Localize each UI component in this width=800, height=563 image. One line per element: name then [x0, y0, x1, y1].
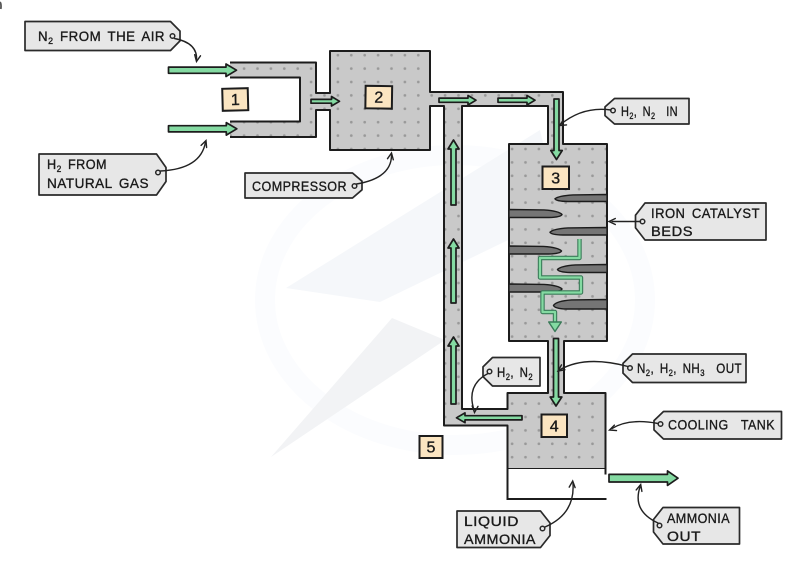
arrow N2 feed in — [169, 64, 237, 77]
numbered label box 5 — [420, 436, 443, 458]
tag: LIQUID AMMONIA — [457, 511, 550, 548]
numbered label box 1 — [222, 88, 248, 111]
numbered label box 2 — [365, 86, 392, 109]
tag: N2 FROM THE AIR — [25, 22, 180, 51]
pointer: H2 N2 in tag to pipe — [560, 109, 612, 125]
iron catalyst bed 1 (right) — [555, 195, 607, 202]
pointer: liquid ammonia tag to tank — [545, 481, 575, 527]
pointer: ammonia out tag to arrow — [636, 485, 658, 524]
svg-text:N2, H2, NH3 OUT: N2, H2, NH3 OUT — [637, 360, 742, 378]
tag: H2 N2 recycle — [483, 358, 540, 387]
numbered label box 3 — [543, 167, 570, 190]
svg-text:IRON CATALYST: IRON CATALYST — [651, 205, 760, 221]
arrow reactor to cooling tank — [550, 339, 562, 407]
pointer: cooling tank tag to vessel 4 — [610, 422, 659, 431]
iron catalyst bed 3 (right) — [550, 228, 607, 236]
iron catalyst bed 7 (right) — [554, 300, 608, 310]
tag: H2 N2 IN — [605, 99, 689, 125]
iron catalyst bed 6 (left) — [509, 284, 562, 292]
tag: COMPRESSOR — [245, 173, 362, 198]
arrow ammonia out — [609, 471, 678, 486]
tag: IRON CATALYST BEDS — [636, 203, 767, 240]
svg-text:LIQUID: LIQUID — [464, 513, 519, 529]
numbered label box 4 — [542, 415, 568, 438]
tag: H2 FROM NATURAL GAS — [39, 154, 166, 195]
watermark lightning bolt logo — [265, 130, 645, 457]
arrow into reactor — [551, 99, 562, 160]
svg-text:OUT: OUT — [667, 528, 701, 544]
tag: AMMONIA OUT — [654, 508, 740, 545]
pointer: compressor tag to vessel 2 — [357, 153, 394, 184]
reactor gas flow zigzag line — [540, 239, 581, 332]
arrow recycle left — [457, 413, 523, 423]
svg-text:AMMONIA: AMMONIA — [667, 510, 730, 526]
pointer: iron catalyst tag to reactor — [609, 219, 641, 225]
svg-text:2: 2 — [374, 90, 383, 107]
svg-text:COMPRESSOR: COMPRESSOR — [252, 178, 347, 194]
tag: COOLING TANK — [654, 412, 782, 440]
arrow H2 feed in — [169, 123, 237, 136]
svg-text:AMMONIA: AMMONIA — [464, 531, 536, 547]
arrow pipe top 2 — [498, 96, 535, 106]
svg-text:H2, N2: H2, N2 — [497, 364, 533, 382]
svg-text:1: 1 — [231, 92, 240, 109]
iron catalyst bed 2 (left) — [509, 210, 562, 218]
arrow vessel1 to compressor — [311, 97, 340, 107]
tag: N2 H2 NH3 OUT — [623, 354, 746, 383]
svg-text:N2 FROM THE AIR: N2 FROM THE AIR — [38, 28, 165, 46]
svg-text:BEDS: BEDS — [651, 223, 693, 239]
svg-text:NATURAL GAS: NATURAL GAS — [47, 175, 149, 191]
svg-text:5: 5 — [427, 440, 436, 457]
iron catalyst bed 5 (right) — [558, 265, 608, 273]
arrow recycle up 2 — [448, 239, 459, 303]
arrow recycle up 1 — [448, 140, 459, 205]
svg-text:3: 3 — [551, 170, 560, 187]
pointer: H2 tag to arrow — [161, 141, 207, 172]
svg-text:COOLING TANK: COOLING TANK — [668, 417, 775, 433]
arrow pipe top 1 — [439, 96, 476, 106]
svg-text:4: 4 — [550, 418, 559, 435]
vessels and pipes combined body (vessel 1, compressor 2, reactor 3, cooling tank 4, recycle pipe 5) — [230, 51, 607, 469]
iron catalyst bed 4 (left) — [509, 246, 562, 254]
cooling tank liquid section (white) — [508, 469, 607, 499]
svg-text:H2 FROM: H2 FROM — [47, 156, 107, 174]
pointer: H2 N2 recycle tag to pipe — [472, 374, 488, 413]
pointer: N2 H2 NH3 out tag to pipe — [558, 362, 628, 371]
corner mark (cropped stroke remnant) — [0, 2, 1, 9]
arrow recycle up 3 — [448, 337, 459, 404]
pointer: N2 tag to arrow — [175, 39, 201, 62]
